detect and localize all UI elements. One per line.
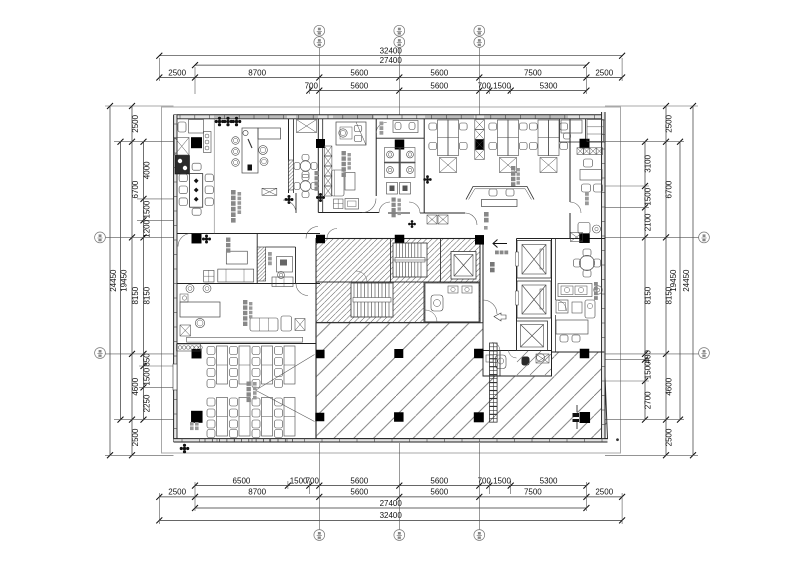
svg-text:5300: 5300 [540,81,558,90]
right strip lower fixtures [571,233,583,242]
stair lower with treads [351,283,393,317]
right dimension chain 3100 1500 2100 8150 400 1500 2700 [644,142,646,420]
wall pantry bottom y352 [552,351,605,353]
core door arcs [327,229,337,239]
WC door arcs [492,343,500,351]
column [192,234,202,244]
svg-text:4600: 4600 [665,377,674,395]
VP desk drawer unit [182,296,186,300]
top dimension chain 700 5600 5600 700 1500 5300 [309,90,586,92]
entry arrow bottom lobby [494,313,506,321]
plants on top wall [215,117,225,127]
left grid bubbles [95,232,106,243]
reception label [484,212,489,217]
svg-text:4000: 4000 [143,161,152,179]
svg-text:6700: 6700 [131,180,140,198]
svg-text:2100: 2100 [644,213,653,231]
bottom wall window mullion pairs [204,439,206,442]
column [394,412,404,422]
column [580,349,590,359]
cluster printer table [440,158,457,173]
lounge door arc [178,234,191,247]
reception counter [466,187,534,200]
reception chairs [489,189,497,196]
window on left wall [173,364,177,390]
GM side table with plant [334,199,344,209]
svg-text:2500: 2500 [665,428,674,446]
GM office desk [336,122,366,145]
column [192,349,202,359]
svg-text:5600: 5600 [430,488,448,497]
bottom dimension chain 2500 8700 5600 5600 7500 2500 [159,496,622,498]
right exterior wall [602,112,606,439]
lobby label [490,262,495,267]
wall pantry left x551.5-555.5 [551,239,553,377]
lounge plant table [204,270,214,282]
bar label [315,171,319,175]
right strip door arc [570,202,581,213]
lounge table [226,251,247,264]
top exterior wall with windows [174,115,605,119]
plant at GM wall end [316,193,325,202]
corridor door arc to open office [465,213,477,225]
right dimension line 19450 [679,142,681,420]
svg-text:1500: 1500 [644,361,653,379]
wall reception bottom y283.5 [177,283,320,285]
svg-text:5600: 5600 [430,68,448,77]
bottom exterior wall with windows [174,439,608,442]
cluster printer table [540,158,557,173]
svg-text:2700: 2700 [644,391,653,409]
GM office sofa and coffee table [332,170,345,196]
pantry fridge and cabinet [556,300,568,313]
column cabinet strip in open office [475,120,485,130]
hatch lines crossing WC block [517,351,541,375]
training desk column [217,346,228,384]
svg-text:2500: 2500 [595,488,613,497]
svg-text:5300: 5300 [540,476,558,485]
corridor door arcs near bar [283,200,296,213]
svg-text:2500: 2500 [131,428,140,446]
pantry labels [594,282,598,286]
training room coat cabinet [177,344,201,351]
column [315,413,324,422]
plant next to column [202,235,211,244]
plant at partition [285,195,294,204]
right strip chair and table [584,159,593,167]
wall archive room right x424 [423,119,425,213]
pantry door arc [556,300,567,311]
lobby entrance arrow [493,243,507,245]
svg-text:7500: 7500 [524,68,542,77]
lobby door arc [483,300,497,314]
wall corridor top y213 [318,212,379,214]
svg-text:2500: 2500 [665,114,674,132]
svg-text:6700: 6700 [665,180,674,198]
wall WC middle x500 [499,351,501,377]
VP office desk [180,302,220,317]
svg-text:27400: 27400 [380,499,403,508]
stair upper with treads [393,243,427,277]
svg-text:700: 700 [306,476,320,485]
core elevator [451,252,476,280]
elevator door slots [516,252,519,266]
wall right strip rooms x585 top area [585,119,587,142]
executive chair [259,146,268,155]
left dimension line 24450 [109,106,111,455]
svg-text:32400: 32400 [380,511,403,520]
VP door arc [296,284,308,296]
svg-text:8700: 8700 [248,68,266,77]
WC left room fixtures [496,355,507,369]
VP office chairs [195,318,204,327]
elevator shaft 3 [517,321,548,351]
print room top right desk [561,120,582,133]
column [316,235,325,244]
black marker near column [573,413,580,417]
svg-text:24450: 24450 [682,269,691,292]
wall plant right of archive [423,175,431,183]
pantry desk [556,320,588,334]
top grid extension lines [158,58,160,81]
projection screen lines [256,355,315,391]
svg-text:5600: 5600 [350,476,368,485]
wall GM office right x376 [375,119,377,196]
svg-text:5600: 5600 [350,68,368,77]
wall chairman office bottom y233 [177,233,258,235]
svg-text:2500: 2500 [168,488,186,497]
print room label [268,252,272,256]
left dimension line 19450 [120,142,122,420]
wall training room right x316 [315,323,317,439]
svg-text:8150: 8150 [131,286,140,304]
svg-text:1500: 1500 [644,187,653,205]
svg-text:1200: 1200 [143,219,152,237]
svg-text:5600: 5600 [430,476,448,485]
training room labels [247,382,251,386]
plant outside bottom wall [180,444,190,454]
column [475,235,484,245]
workstation cluster [538,120,549,156]
svg-text:5600: 5600 [350,488,368,497]
wall open office right x570 [569,119,571,202]
svg-text:8700: 8700 [248,488,266,497]
chairman office cabinet with X [175,138,190,156]
pantry round table and chairs [580,256,595,271]
left dimension chain 2500 6700 8150 4600 2500 [131,106,133,455]
wall print room right x295 [295,247,297,284]
print room desk and chair [277,257,293,273]
left exterior wall with windows [174,115,177,439]
svg-text:1500: 1500 [143,367,152,385]
right grid bubbles [699,232,710,243]
wall lobby left x483 [482,239,484,323]
svg-text:1500: 1500 [143,200,152,218]
hatched core area - stair and elevator core [316,239,480,323]
column [316,139,325,148]
pantry sink counter [558,284,592,297]
training desk column [284,346,295,384]
workstation cluster [498,120,509,156]
training desk column [239,346,250,384]
right dimension chain 2500 6700 8150 4600 2500 [665,106,667,455]
chairman office foyer line [213,119,215,234]
wall reception room right x257 with insulated strip [256,234,258,284]
cluster printer table [500,158,517,173]
bottom grid extension lines and bubbles [158,493,160,524]
column [474,412,484,422]
bottom dimension line 32400 [159,519,622,521]
svg-text:2500: 2500 [168,68,186,77]
top grid bubbles [314,25,325,36]
VP cylinders on desk [186,285,194,293]
svg-text:27400: 27400 [380,56,403,65]
column [395,140,405,150]
column [580,412,591,423]
svg-text:8150: 8150 [665,286,674,304]
small meeting room top [393,121,418,133]
lounge sofa [218,269,254,282]
executive desk guest chairs [232,137,240,145]
column [191,411,203,423]
bar cabinet top [297,120,317,133]
corridor storage shelving [427,215,437,224]
workstation cluster [438,120,449,156]
hatched area large - not in renovation scope [316,323,608,439]
VP office label [243,300,247,304]
plant in corridor [408,220,416,228]
right strip label [585,192,589,196]
training desk column [262,346,273,384]
archive room label [392,198,396,202]
executive desk area [242,128,258,173]
open office label [511,166,515,170]
column [580,139,590,149]
column [475,139,484,150]
svg-text:1500: 1500 [493,476,511,485]
exit stair label [190,422,194,426]
svg-text:19450: 19450 [120,269,129,292]
left extension lines [105,105,174,107]
GM office wardrobe cabinets [324,146,332,156]
conference table [190,174,203,208]
core WC fixtures [431,295,443,311]
top dimension chain 2500 8700 5600 5600 7500 2500 [159,77,622,79]
top dimension line 32400 [159,55,622,57]
telephone symbol [248,165,253,171]
chairman office entry desk [189,120,204,134]
column [316,350,325,359]
svg-text:2500: 2500 [131,114,140,132]
wall GM office left x318-323 with column line [317,119,319,213]
print room copier [272,277,293,287]
svg-text:700: 700 [305,81,319,90]
svg-text:5600: 5600 [350,81,368,90]
wall chairman office right / partition x288 [288,119,290,193]
svg-text:850: 850 [143,353,152,367]
svg-text:1500: 1500 [493,81,511,90]
WC right room fixtures [536,354,549,363]
chairman office dark side table [175,156,190,175]
bar counter with X [262,188,277,195]
core WC room [425,283,479,322]
column [579,233,590,243]
wall training room top y343.5 [177,343,316,345]
right extension lines [605,105,698,107]
column [191,137,202,148]
label: area not in renovation scope (vertical) [490,343,498,351]
printer stands [387,183,398,195]
conference chairs [179,174,187,182]
column [394,349,403,358]
svg-text:2500: 2500 [595,68,613,77]
wall core top y238.5 to lobby [318,238,483,240]
svg-text:3100: 3100 [644,154,653,172]
wall WC top y350.5 [483,350,552,352]
top right shelving [587,120,604,142]
svg-text:7500: 7500 [524,488,542,497]
GM office label [342,151,346,155]
svg-text:8150: 8150 [143,286,152,304]
bottom dimension chain 6500 1500 700 5600 5600 700 1500 5300 [195,485,586,487]
bottom dimension line 27400 [195,507,586,509]
right strip cabinet row with X [577,148,583,155]
svg-text:2250: 2250 [143,394,152,412]
wall WC bottom y376 [483,375,552,377]
column [474,349,484,359]
frame corner dot [616,439,618,441]
core sub walls [390,239,392,283]
bar round tables with chairs [300,161,310,171]
VP low cabinet [187,337,303,342]
right dimension line 24450 [692,106,694,455]
svg-text:32400: 32400 [380,47,403,56]
lounge label [226,238,230,242]
VP side table with X [180,325,191,336]
wall vp office top corridor stub [295,193,297,213]
svg-text:6500: 6500 [233,476,251,485]
wall elevator bank left x516.5 [516,239,518,351]
workstation cluster 2x2 with cross partition [399,147,401,178]
svg-text:4600: 4600 [131,377,140,395]
svg-text:24450: 24450 [109,269,118,292]
reception desk [482,200,518,207]
left dimension chain 4000 1500 1200 8150 850 1500 2250 [143,142,145,420]
svg-text:5600: 5600 [430,81,448,90]
VP sofa set [250,318,278,331]
archive door arcs [379,202,390,213]
GM TV cabinet [345,199,359,210]
GM door arc [362,199,376,213]
drawing frame [162,107,621,453]
top dimension line 27400 [195,64,586,66]
chairman office service unit [204,132,212,153]
svg-text:8150: 8150 [644,286,653,304]
chairman office label [231,190,236,195]
elevator shaft 1 [517,241,551,279]
svg-text:400: 400 [644,350,653,364]
wall small meeting room bottom y138 [376,137,424,139]
elevator shaft 2 [517,281,551,318]
column [395,235,405,245]
